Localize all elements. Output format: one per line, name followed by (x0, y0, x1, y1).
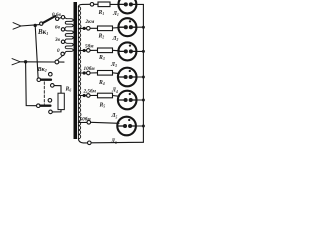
switch Вк2 pole2 upper throw contact (48, 99, 52, 103)
svg-text:2,5бм: 2,5бм (83, 88, 97, 95)
svg-text:0,6в: 0,6в (52, 12, 61, 18)
svg-text:R4: R4 (98, 80, 105, 86)
transformer secondary winding (77, 7, 79, 139)
switch Вк1 throw contact (56, 17, 59, 20)
lamp Л1 (118, 0, 136, 13)
switch Вк2 pole2 blade (40, 105, 50, 107)
wire bus2 vertical (26, 62, 37, 106)
wire input1 to junction (21, 25, 40, 26)
wire pole2 lower throw to R6 bottom (52, 110, 61, 112)
wire Вк1 to tap1 (59, 17, 61, 20)
switch Вк2 pole1 upper throw contact (49, 72, 53, 76)
transformer primary tap terminal 4 (61, 52, 64, 55)
node bus row6 (142, 125, 145, 128)
node tap row2 (83, 27, 86, 30)
wire secondary top to row1 (78, 4, 90, 7)
node bus row3 (142, 50, 145, 53)
wire R4 to lamp4 (113, 72, 120, 75)
node tap row3 (83, 49, 86, 52)
input terminal 1 (arrow) (13, 23, 21, 30)
switch Вк1 blade (43, 16, 56, 23)
svg-text:Л1: Л1 (112, 11, 119, 17)
svg-text:2км: 2км (85, 19, 95, 25)
svg-text:Л4: Л4 (111, 88, 118, 94)
node bus row2 (142, 26, 145, 29)
svg-text:Вк1: Вк1 (37, 28, 48, 36)
wire primary zero end down to terminal (57, 56, 62, 61)
primary winding section 2 (65, 29, 74, 41)
svg-text:R5: R5 (99, 103, 106, 109)
resistor R6 (ballast) (58, 93, 64, 109)
svg-text:R2: R2 (98, 34, 105, 40)
svg-text:R3: R3 (98, 55, 105, 61)
wire row1 to R1 (94, 3, 98, 5)
resistor R3 (98, 48, 113, 53)
wire bus1 vertical (35, 25, 38, 79)
secondary winding bumps (78, 7, 81, 139)
wire lamp3 to bus (136, 50, 143, 52)
lamp Л2 (118, 18, 136, 36)
svg-text:R6: R6 (65, 87, 72, 93)
switch Вк1 pivot contact (40, 22, 43, 25)
svg-text:0: 0 (57, 48, 60, 54)
terminal row2 (87, 27, 91, 31)
wire R5 to lamp5 (113, 95, 120, 98)
terminal circle on zero wire (55, 60, 59, 64)
node junction input2/bus2 (24, 60, 27, 63)
wire pole1 lower throw to R6 top (54, 86, 61, 94)
svg-text:Л2: Л2 (112, 36, 119, 42)
switch Вк2 pole2 lower throw contact (49, 110, 53, 114)
wire row5 to R5 (90, 94, 97, 96)
svg-text:6в: 6в (55, 25, 61, 31)
transformer primary tap terminal 1 (61, 16, 64, 19)
wire tap row4 (78, 72, 86, 74)
svg-text:5бм: 5бм (85, 42, 94, 49)
resistor R2 (98, 26, 113, 31)
wire tap row3 (78, 50, 86, 52)
wire input2 horizontal (20, 61, 55, 63)
svg-text:R1: R1 (98, 10, 105, 16)
node tap row5 (83, 94, 86, 97)
wire tap row5 (78, 95, 86, 97)
wire lamp4 to bus (137, 76, 144, 78)
node junction input1/bus1 (34, 24, 37, 27)
terminal row4 (87, 71, 91, 75)
wire bottom return (91, 141, 143, 144)
wire R3 to lamp3 (113, 49, 120, 52)
primary winding section 1 (65, 17, 73, 29)
svg-text:Л6: Л6 (110, 139, 117, 145)
terminal row3 (87, 49, 91, 53)
primary winding section 3 (65, 42, 74, 54)
node bus row5 (142, 99, 145, 102)
terminal row5 (87, 94, 91, 98)
terminal row1 (90, 3, 94, 7)
transformer T1 core (74, 2, 78, 139)
resistor R1 (98, 2, 110, 7)
node bus row4 (142, 76, 145, 79)
wire R1 to lamp1 (110, 3, 120, 5)
lamp Л3 (118, 42, 136, 60)
resistor R5 (98, 93, 113, 98)
lamp Л5 (118, 91, 137, 110)
svg-text:Л5: Л5 (111, 113, 118, 119)
node tap row4 (83, 71, 86, 74)
svg-text:50бм: 50бм (80, 115, 92, 122)
svg-text:Вк2: Вк2 (37, 66, 47, 73)
wire lamp2 to bus (136, 26, 143, 28)
wire lamp5 to bus (137, 99, 144, 101)
wire input2 continues to zero tap (59, 61, 64, 63)
svg-text:10бм: 10бм (84, 65, 96, 72)
switch Вк2 pole1 lower throw contact (51, 84, 55, 88)
switch Вк2 pole1 pivot (37, 78, 41, 82)
right bus wire (142, 4, 144, 142)
terminal bottom return (88, 141, 92, 145)
terminal row6 (87, 121, 91, 125)
wire row3 to R3 (90, 49, 97, 51)
wire row4 to R4 (90, 72, 97, 74)
svg-text:Л3: Л3 (110, 62, 117, 68)
switch Вк2 pole1 blade (41, 79, 51, 81)
wire tap row2 (78, 27, 86, 29)
switch Вк2 pole2 pivot (37, 104, 41, 108)
svg-text:3в: 3в (54, 37, 61, 43)
wire lamp1 to bus (136, 3, 143, 5)
lamp Л4 (118, 68, 137, 87)
wire secondary bottom to return (78, 138, 87, 143)
lamp Л6 (117, 117, 136, 136)
transformer primary tap terminal 2 (61, 28, 64, 31)
switch Вк2 mechanical link (dashed) (43, 82, 45, 104)
wire tap row6 (78, 121, 87, 123)
wire R2 to lamp2 (113, 27, 120, 29)
resistor R4 (98, 71, 113, 76)
transformer primary tap terminal 3 (61, 40, 64, 43)
wire row2 to R2 (90, 27, 97, 29)
wire lamp6 to bus (136, 125, 144, 127)
wire row6 to lamp6 (91, 122, 119, 123)
input terminal 2 (arrow) (12, 59, 20, 65)
